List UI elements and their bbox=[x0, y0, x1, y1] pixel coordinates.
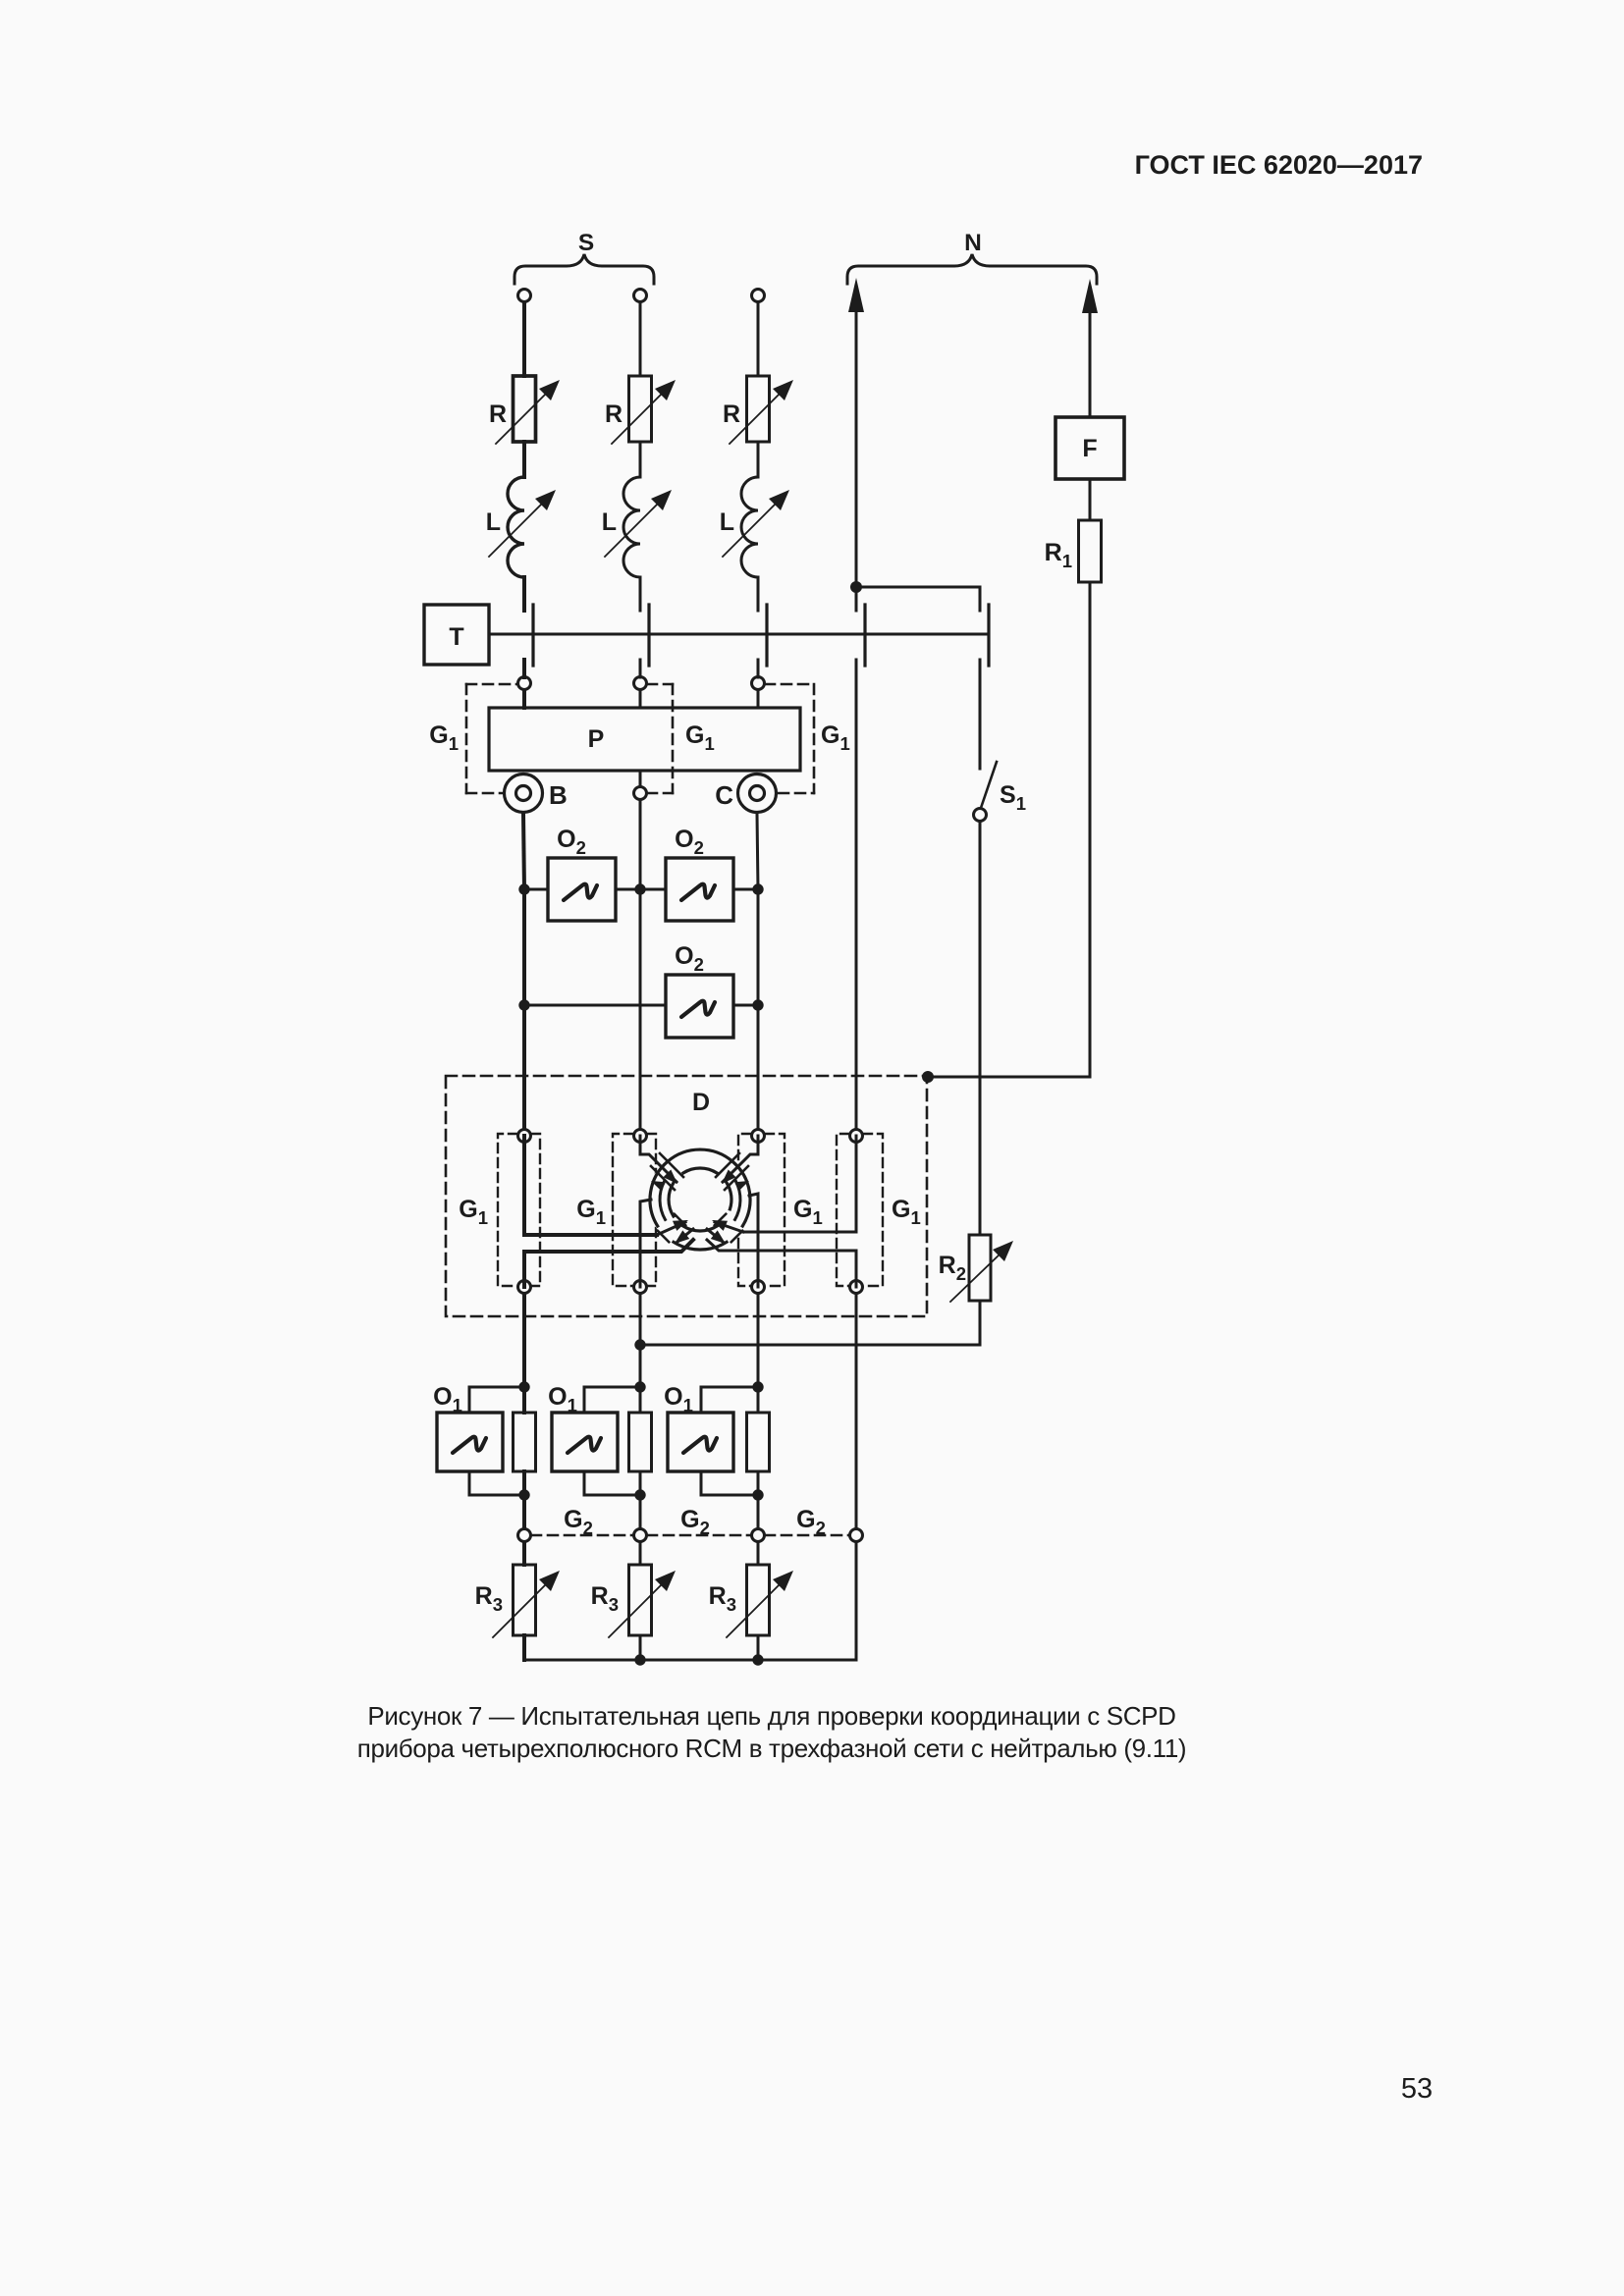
dashed segment bottom mid bbox=[647, 792, 673, 795]
label G1 pole4 bbox=[892, 1196, 921, 1228]
wire phase3 dot to resistor bbox=[757, 1387, 760, 1413]
wire L1 terminal to R bbox=[522, 302, 526, 376]
wire neutral dot to switch pole 4 bbox=[855, 587, 858, 611]
inductor L phase 1 bbox=[489, 477, 556, 577]
surge device O1 box c bbox=[668, 1387, 758, 1495]
wire D to O1 phase 2 bbox=[639, 1294, 642, 1387]
label G2 segment 1 bbox=[564, 1506, 593, 1538]
terminal P output phase 2 bbox=[634, 787, 647, 800]
wire phase1 to D box bbox=[522, 1005, 526, 1136]
resistor R phase 3 bbox=[730, 376, 793, 444]
wire S1 to R2 bbox=[979, 822, 982, 1235]
label R3 phase 1 bbox=[475, 1582, 503, 1615]
resistor R1 bbox=[1079, 520, 1102, 582]
node S label bbox=[578, 230, 594, 256]
label L phase 3 bbox=[720, 508, 734, 536]
wire switch to P terminal phase 2 bbox=[639, 660, 642, 677]
wire R1 down to D box bbox=[928, 582, 1090, 1077]
series resistor phase 3 bbox=[747, 1413, 770, 1471]
wire dot to G2 circle phase 1 bbox=[522, 1495, 526, 1528]
label R3 phase 2 bbox=[591, 1582, 619, 1615]
wire phase2 dot to resistor bbox=[639, 1387, 642, 1413]
dashed connection box G1 mid edge bbox=[672, 684, 675, 793]
wire phase3 to D box bbox=[757, 1005, 760, 1136]
primary conductor pole 2 lower stub bbox=[640, 1200, 651, 1287]
svg-text:53: 53 bbox=[1401, 2073, 1433, 2105]
label R2 bbox=[939, 1252, 966, 1284]
neutral arrow right bbox=[1082, 279, 1098, 417]
terminal P input phase 1 bbox=[518, 677, 531, 690]
contact circle D top pole 4 bbox=[850, 1130, 863, 1143]
contact circle D bottom pole 4 bbox=[850, 1281, 863, 1294]
terminal P input phase 2 bbox=[634, 677, 647, 690]
svg-text:R: R bbox=[605, 400, 623, 428]
dashed segment top left bbox=[466, 683, 517, 686]
label G1 pole1 bbox=[459, 1196, 488, 1228]
svg-text:D: D bbox=[692, 1089, 710, 1116]
label B bbox=[549, 780, 568, 810]
label G2 segment 3 bbox=[796, 1506, 826, 1538]
label O2 box a bbox=[557, 826, 586, 858]
dashed pole box G1 pole3 bbox=[738, 1134, 785, 1286]
brace S over supply terminals bbox=[514, 254, 654, 284]
wire D to O1 phase 1 bbox=[522, 1294, 526, 1387]
switch T pole 1 blade bbox=[531, 605, 534, 666]
wire switch pole 5 to S1 bbox=[979, 660, 982, 769]
svg-text:T: T bbox=[449, 623, 463, 651]
wire R2 to phase 2 junction bbox=[640, 1301, 980, 1345]
G2 contact circle phase 3 bbox=[752, 1529, 765, 1542]
junction dot O1 top phase 1 bbox=[518, 1381, 529, 1392]
svg-text:ГОСТ IEC 62020—2017: ГОСТ IEC 62020—2017 bbox=[1135, 150, 1423, 180]
junction dot D to neutral feed bbox=[922, 1071, 934, 1083]
wire O2b to phase3 bbox=[733, 888, 758, 891]
label R phase 3 bbox=[723, 400, 740, 428]
wire phase1 dot to resistor bbox=[522, 1387, 526, 1413]
toroid crossing marks upper right bbox=[716, 1153, 748, 1190]
primary conductor pole 1 through toroid bbox=[524, 1136, 688, 1235]
junction dot O1 bottom phase 3 bbox=[752, 1489, 763, 1500]
dashed connection box G1 right edge bbox=[813, 684, 816, 793]
label G1 right of P bbox=[821, 721, 850, 754]
wire R to L phase 1 bbox=[522, 442, 526, 477]
wire switch to P terminal phase 1 bbox=[522, 660, 526, 677]
wire resistor to dot phase 3 bbox=[757, 1471, 760, 1495]
dashed segment bottom left bbox=[466, 792, 502, 795]
wire O2b left lead bbox=[640, 888, 666, 891]
wire G2 to R3 phase 3 bbox=[757, 1542, 760, 1565]
primary conductor pole 3 lower stub bbox=[749, 1194, 758, 1287]
wire L to switch phase 1 bbox=[522, 577, 526, 611]
secondary winding arc left bbox=[660, 1181, 665, 1219]
resistor R phase 1 bbox=[496, 376, 560, 444]
label G2 segment 2 bbox=[680, 1506, 710, 1538]
G2 contact circle phase 1 bbox=[518, 1529, 531, 1542]
dashed pole box G1 pole1 bbox=[498, 1134, 540, 1286]
label O2 box b bbox=[675, 826, 704, 858]
resistor R3 phase 2 bbox=[609, 1565, 676, 1637]
wire dot to G2 circle phase 2 bbox=[639, 1495, 642, 1528]
secondary winding arc right bbox=[735, 1181, 740, 1219]
contact circle D bottom pole 3 bbox=[752, 1281, 765, 1294]
primary conductor pole 2 through toroid bbox=[640, 1136, 677, 1184]
wire O2c to phase3 bbox=[733, 1004, 758, 1007]
junction dot R2 return on phase 2 bbox=[634, 1339, 645, 1350]
label O1 box b bbox=[548, 1383, 577, 1415]
wire P input phase 3 bbox=[757, 690, 760, 708]
label D bbox=[692, 1089, 710, 1116]
wire P output phase 2 stub bbox=[639, 771, 642, 786]
junction dot O2 row1 phase 2 bbox=[634, 883, 645, 894]
wire jog to switch pole 5 bbox=[856, 587, 980, 611]
surge device O2 box a bbox=[548, 858, 616, 921]
label O1 box c bbox=[664, 1383, 693, 1415]
wire B to O2 row phase 1 bbox=[523, 814, 524, 889]
toroid crossing marks lower left bbox=[658, 1214, 685, 1242]
node N label bbox=[964, 230, 982, 256]
svg-text:P: P bbox=[588, 725, 605, 753]
primary conductor pole 3 through toroid bbox=[722, 1136, 758, 1184]
wire resistor to dot phase 2 bbox=[639, 1471, 642, 1495]
junction dot O2 row2 phase 1 bbox=[518, 999, 529, 1010]
label O2 box c bbox=[675, 942, 704, 975]
label L phase 1 bbox=[486, 508, 501, 536]
resistor R2 bbox=[950, 1235, 1013, 1302]
dashed pole box G1 pole4 bbox=[837, 1134, 883, 1286]
terminal C output phase 3 bbox=[738, 774, 777, 813]
winding arrow left upper bbox=[651, 1181, 666, 1191]
dashed pole box G1 pole2 bbox=[613, 1134, 656, 1286]
svg-text:F: F bbox=[1082, 435, 1097, 462]
toroid outer ring bbox=[650, 1149, 750, 1250]
switch T pole 2 blade bbox=[647, 605, 650, 666]
svg-text:Рисунок 7 — Испытательная цепь: Рисунок 7 — Испытательная цепь для прове… bbox=[367, 1701, 1175, 1731]
wire R3 to bottom bus phase 1 bbox=[522, 1635, 526, 1660]
wire L to switch phase 2 bbox=[639, 577, 642, 611]
bottom bus wire bbox=[524, 1659, 856, 1662]
junction dot O1 top phase 2 bbox=[634, 1381, 645, 1392]
wire R3 to bottom bus phase 2 bbox=[639, 1635, 642, 1660]
wire resistor to dot phase 1 bbox=[522, 1471, 526, 1495]
svg-text:прибора четырехполюсного RCM в: прибора четырехполюсного RCM в трехфазно… bbox=[357, 1734, 1187, 1763]
junction dot bottom bus phase 3 bbox=[752, 1654, 763, 1665]
label S1 bbox=[1000, 781, 1026, 814]
wire F to R1 bbox=[1089, 479, 1092, 520]
neutral arrow left bbox=[848, 278, 864, 587]
wire phase1 between O2 rows bbox=[522, 889, 526, 1005]
wire P input phase 1 bbox=[522, 690, 526, 708]
terminal L2 bbox=[634, 290, 647, 302]
resistor R3 phase 1 bbox=[493, 1565, 560, 1637]
switch S1 bbox=[974, 762, 998, 822]
resistor R3 phase 3 bbox=[727, 1565, 793, 1637]
resistor R phase 2 bbox=[612, 376, 676, 444]
primary conductor pole 4 return bbox=[707, 1229, 856, 1287]
wire L3 terminal to R bbox=[757, 302, 760, 376]
label C bbox=[715, 780, 733, 810]
wire O2a left lead bbox=[524, 888, 548, 891]
dashed link G2 segment 3 bbox=[765, 1534, 849, 1537]
winding arrow right upper bbox=[734, 1181, 749, 1191]
svg-text:L: L bbox=[720, 508, 734, 536]
dashed segment bottom right bbox=[779, 792, 814, 795]
junction dot O1 bottom phase 2 bbox=[634, 1489, 645, 1500]
junction dot bottom bus phase 2 bbox=[634, 1654, 645, 1665]
svg-text:L: L bbox=[486, 508, 501, 536]
surge device O1 box a bbox=[437, 1387, 524, 1495]
label G1 pole2 bbox=[576, 1196, 606, 1228]
dashed segment top right bbox=[765, 683, 814, 686]
contact circle D bottom pole 1 bbox=[518, 1281, 531, 1294]
label O1 box a bbox=[433, 1383, 462, 1415]
test switch T box bbox=[424, 605, 489, 665]
terminal P input phase 3 bbox=[752, 677, 765, 690]
junction dot O2 row1 phase 3 bbox=[752, 883, 763, 894]
wire D to O1 phase 3 bbox=[757, 1294, 760, 1387]
surge device O1 box b bbox=[552, 1387, 640, 1495]
switch T bus bar bbox=[489, 633, 989, 636]
contact circle D top pole 1 bbox=[518, 1130, 531, 1143]
wire L to switch phase 3 bbox=[757, 577, 760, 611]
terminal B output phase 1 bbox=[505, 774, 543, 813]
wire phase3 between O2 rows bbox=[757, 889, 760, 1005]
wire G2 to R3 phase 1 bbox=[522, 1542, 526, 1565]
surge device O2 box b bbox=[666, 858, 733, 921]
junction dot O1 bottom phase 1 bbox=[518, 1489, 529, 1500]
inductor L phase 2 bbox=[605, 477, 672, 577]
series resistor phase 1 bbox=[514, 1413, 536, 1471]
svg-text:S: S bbox=[578, 230, 594, 256]
svg-text:C: C bbox=[715, 780, 733, 810]
svg-text:B: B bbox=[549, 780, 568, 810]
svg-text:N: N bbox=[964, 230, 982, 256]
wire phase 2 to O2 row bbox=[639, 800, 642, 889]
svg-text:R: R bbox=[723, 400, 740, 428]
wire P input phase 2 bbox=[639, 690, 642, 708]
svg-text:R: R bbox=[489, 400, 507, 428]
wire R3 to bottom bus phase 3 bbox=[757, 1635, 760, 1660]
label G1 left of P bbox=[429, 721, 459, 754]
junction dot O2 row1 phase 1 bbox=[518, 883, 529, 894]
junction dot O2 row2 phase 3 bbox=[752, 999, 763, 1010]
wire O2c left lead bbox=[524, 1004, 666, 1007]
label L phase 2 bbox=[602, 508, 617, 536]
junction dot neutral left bbox=[850, 581, 862, 593]
primary conductor pole 4 through toroid bbox=[712, 1136, 856, 1232]
G2 contact circle neutral bbox=[850, 1529, 863, 1542]
label R3 phase 3 bbox=[709, 1582, 736, 1615]
dashed link G2 segment 1 bbox=[531, 1534, 633, 1537]
SCPD device P box bbox=[489, 708, 800, 771]
wire C to O2 row phase 3 bbox=[757, 814, 758, 889]
contact circle D top pole 2 bbox=[634, 1130, 647, 1143]
label G1 inside P bbox=[685, 721, 715, 754]
wire D pole 4 down to bottom bus bbox=[855, 1294, 858, 1660]
series resistor phase 2 bbox=[629, 1413, 652, 1471]
label R phase 2 bbox=[605, 400, 623, 428]
toroid crossing marks upper left bbox=[651, 1153, 683, 1190]
label P bbox=[588, 725, 605, 753]
wire phase2 below O2 row1 bbox=[639, 889, 642, 1136]
surge device O2 box c bbox=[666, 975, 733, 1038]
RCM device D dashed enclosure bbox=[446, 1076, 927, 1316]
toroid crossing marks lower right bbox=[715, 1214, 742, 1242]
svg-text:L: L bbox=[602, 508, 617, 536]
terminal L1 bbox=[518, 290, 531, 302]
switch T pole 4 blade bbox=[863, 605, 866, 666]
switch T pole 3 blade bbox=[765, 605, 768, 666]
wire R to L phase 3 bbox=[757, 442, 760, 477]
junction dot O1 top phase 3 bbox=[752, 1381, 763, 1392]
dashed connection box G1 left edge bbox=[465, 684, 468, 793]
dashed link G2 segment 2 bbox=[647, 1534, 751, 1537]
switch T pole 5 blade bbox=[987, 605, 990, 666]
toroid inner ring bbox=[669, 1168, 731, 1231]
contact circle D top pole 3 bbox=[752, 1130, 765, 1143]
toroid body disc bbox=[648, 1148, 752, 1252]
dashed segment top mid bbox=[647, 683, 673, 686]
wire G2 to R3 phase 2 bbox=[639, 1542, 642, 1565]
wire dot to G2 circle phase 3 bbox=[757, 1495, 760, 1528]
wire R to L phase 2 bbox=[639, 442, 642, 477]
brace N over neutral conductors bbox=[847, 254, 1097, 284]
wire switch pole 4 down bbox=[855, 660, 858, 1129]
inductor L phase 3 bbox=[723, 477, 789, 577]
label R phase 1 bbox=[489, 400, 507, 428]
terminal L3 bbox=[752, 290, 765, 302]
fuse F bbox=[1056, 417, 1124, 479]
wire L2 terminal to R bbox=[639, 302, 642, 376]
contact circle D bottom pole 2 bbox=[634, 1281, 647, 1294]
wire O2a to phase2 bbox=[616, 888, 640, 891]
G2 contact circle phase 2 bbox=[634, 1529, 647, 1542]
wire switch to P terminal phase 3 bbox=[757, 660, 760, 677]
primary conductor pole 1 return bbox=[524, 1229, 693, 1287]
label G1 pole3 bbox=[793, 1196, 823, 1228]
label R1 bbox=[1045, 539, 1072, 571]
